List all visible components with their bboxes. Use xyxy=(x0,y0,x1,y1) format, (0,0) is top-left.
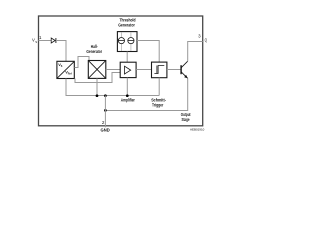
wire emitter to ground rail xyxy=(105,78,187,110)
wire hall output to amplifier input xyxy=(106,69,120,71)
hall generator plate xyxy=(88,61,106,79)
junction emitter rail and gnd xyxy=(104,109,107,112)
ground rail xyxy=(66,95,159,97)
wire threshold generator to schmitt trigger top xyxy=(137,41,159,63)
junction amplifier to ground rail xyxy=(126,94,129,97)
wire diode cathode to voltage regulator top xyxy=(56,41,66,62)
wire collector to output pin 3 xyxy=(188,42,203,62)
svg-text:Amplifier: Amplifier xyxy=(121,98,135,103)
wire schmitt bottom to ground rail xyxy=(158,78,160,96)
current source I2 xyxy=(128,38,134,44)
svg-text:GND: GND xyxy=(101,128,111,133)
label Output Stage xyxy=(181,112,191,122)
svg-text:S: S xyxy=(35,40,37,44)
wire regulator VRef reference to amplifier lower input xyxy=(75,73,120,83)
current source I1 xyxy=(118,38,124,44)
threshold generator block xyxy=(117,32,137,52)
outer IC boundary box xyxy=(39,16,203,126)
wire amplifier output to schmitt trigger xyxy=(136,69,151,71)
wire regulator VRef to hall generator top-left xyxy=(74,57,89,68)
wire amplifier bottom to ground rail xyxy=(126,78,128,96)
svg-text:Q: Q xyxy=(205,38,208,43)
schmitt trigger block xyxy=(152,62,167,78)
svg-text:AEB01910: AEB01910 xyxy=(190,128,205,132)
svg-text:Ref: Ref xyxy=(68,73,72,76)
svg-text:Generator: Generator xyxy=(86,49,102,54)
svg-text:Generator: Generator xyxy=(118,22,135,27)
wire pin1 supply from left edge to diode xyxy=(39,40,52,42)
svg-text:Stage: Stage xyxy=(182,117,190,122)
wire schmitt output to transistor base xyxy=(167,69,181,71)
svg-text:Trigger: Trigger xyxy=(152,102,164,107)
junction hall to ground rail xyxy=(96,94,99,97)
wire regulator bottom to ground rail xyxy=(66,79,97,96)
label VS supply pin xyxy=(32,38,37,44)
voltage regulator U1 VS to VRef xyxy=(57,61,74,78)
amplifier A1 xyxy=(120,62,136,77)
wire threshold generator bottom to amplifier top xyxy=(126,52,128,63)
wire gnd pin 2 xyxy=(104,96,106,128)
diode D1 reverse protection xyxy=(51,38,56,43)
svg-text:2: 2 xyxy=(102,120,105,125)
wire hall bottom to ground rail xyxy=(96,78,98,95)
junction gnd branch xyxy=(104,94,107,97)
label Threshold Generator xyxy=(118,17,136,27)
label Hall-Generator xyxy=(86,44,102,54)
label Schmitt-Trigger xyxy=(151,97,166,107)
output transistor Q1 xyxy=(181,61,188,78)
